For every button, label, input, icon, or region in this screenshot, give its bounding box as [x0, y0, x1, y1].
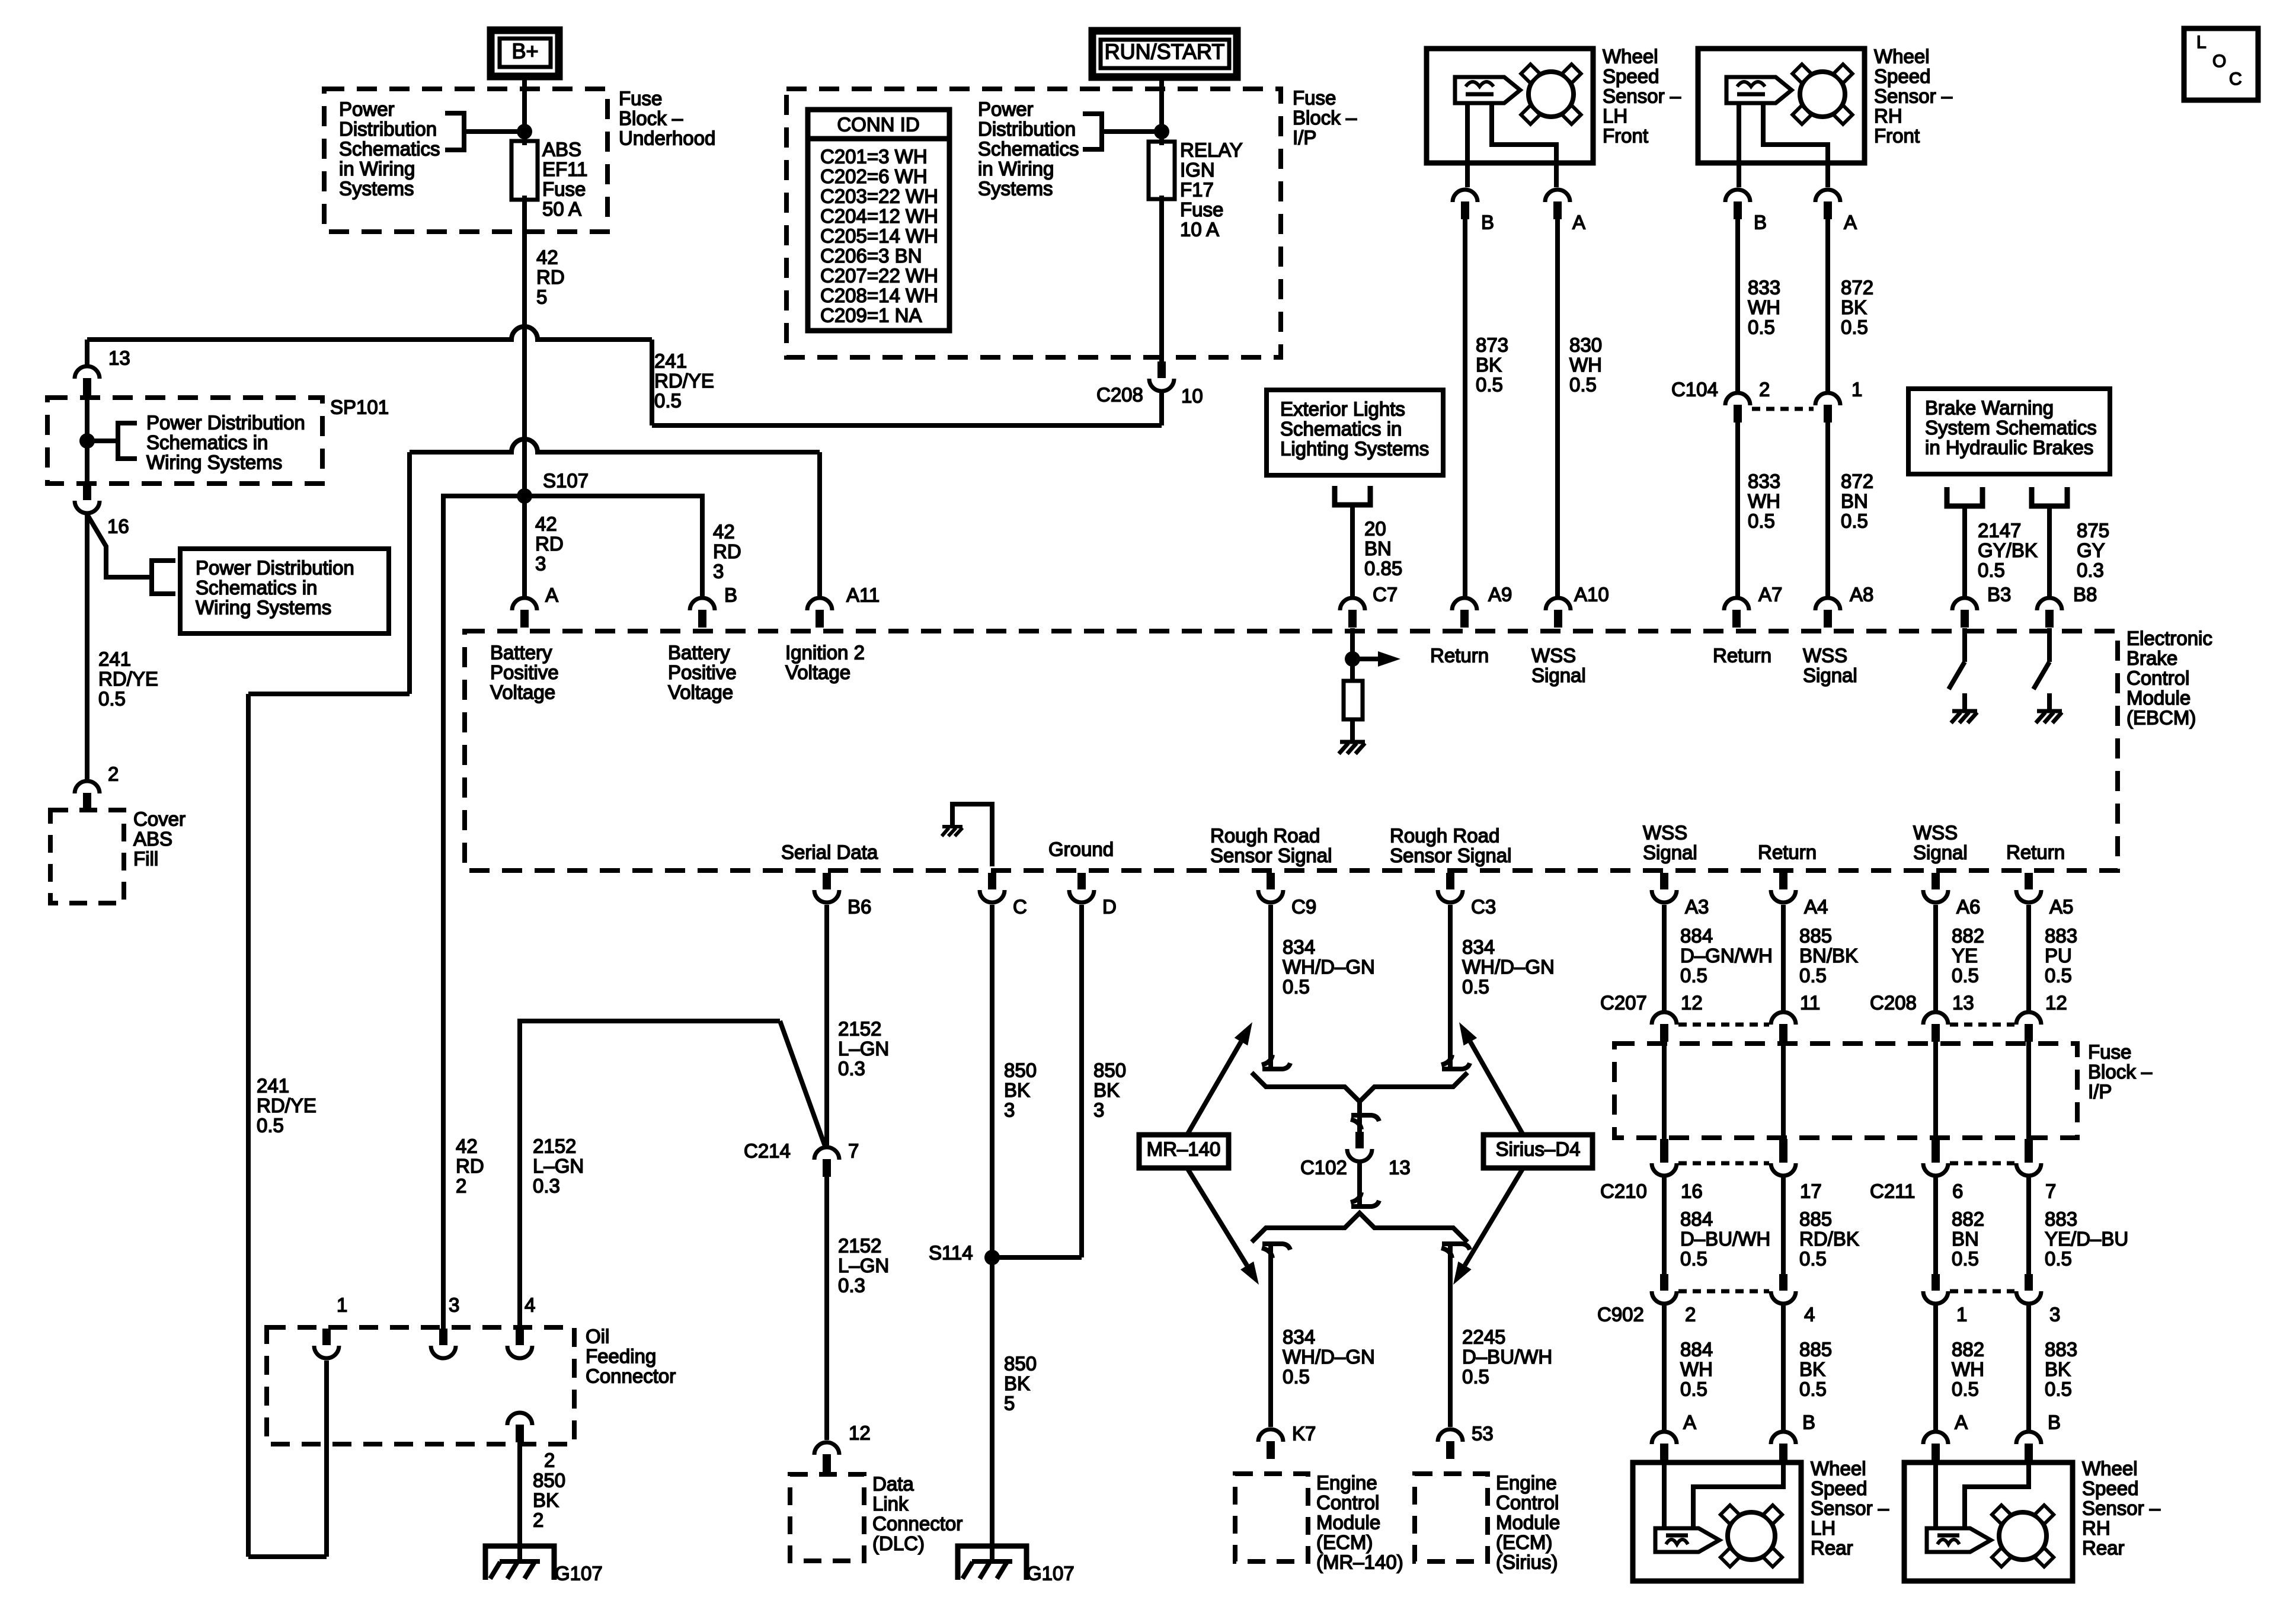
- brace lower (pair K7/53): [1252, 1213, 1467, 1242]
- svg-text:Return: Return: [1430, 644, 1489, 666]
- svg-text:C: C: [2229, 69, 2242, 89]
- svg-text:0.5: 0.5: [1569, 373, 1597, 395]
- svg-text:Sensor –: Sensor –: [2082, 1497, 2161, 1519]
- wire fuse F17 down: [1159, 196, 1164, 361]
- connector C210/C211 row at 3423: [2025, 1139, 2033, 1163]
- connector C210/C211 row at 3266: [1932, 1139, 1940, 1163]
- svg-text:2245: 2245: [1462, 1326, 1505, 1348]
- svg-text:C201=3 WH: C201=3 WH: [820, 145, 928, 167]
- connector DLC pin 12: [814, 1442, 839, 1455]
- svg-text:2152: 2152: [533, 1135, 576, 1157]
- wire to B8: [2047, 506, 2052, 598]
- svg-text:42: 42: [456, 1135, 478, 1157]
- connector A4 pin: [1779, 873, 1787, 889]
- connector C207/C208 row at 3266: [1923, 1012, 1948, 1025]
- svg-text:13: 13: [108, 347, 130, 369]
- svg-text:Connector: Connector: [872, 1512, 962, 1534]
- svg-text:RD/YE: RD/YE: [257, 1094, 316, 1116]
- svg-text:884: 884: [1680, 1208, 1713, 1230]
- svg-text:2: 2: [1685, 1303, 1696, 1325]
- svg-text:BK: BK: [1476, 354, 1502, 376]
- svg-text:850: 850: [1093, 1059, 1126, 1081]
- svg-text:WH/D–GN: WH/D–GN: [1462, 956, 1555, 978]
- svg-text:MR–140: MR–140: [1147, 1138, 1221, 1160]
- svg-text:0.5: 0.5: [1462, 975, 1489, 997]
- connector oil pin 3: [439, 1329, 447, 1345]
- svg-text:Schematics: Schematics: [978, 137, 1079, 159]
- svg-text:BK: BK: [1093, 1079, 1120, 1101]
- wire 16 leader diagonal: [87, 514, 152, 577]
- svg-text:L–GN: L–GN: [838, 1038, 889, 1060]
- cover ABS fill dashed box: [50, 810, 124, 903]
- svg-text:0.5: 0.5: [1283, 1365, 1310, 1387]
- ground G107 (right): [958, 1546, 1027, 1580]
- svg-text:Block –: Block –: [619, 107, 683, 129]
- svg-text:Engine: Engine: [1316, 1471, 1377, 1493]
- svg-text:Sensor Signal: Sensor Signal: [1390, 844, 1511, 866]
- connector C210/C211 row at 3009: [1779, 1139, 1787, 1163]
- connector rear sensor pin at 3009: [1771, 1432, 1796, 1444]
- hook C9: [1262, 1055, 1272, 1065]
- wire oil pin 2 to G107: [517, 1442, 522, 1562]
- svg-text:C206=3 BN: C206=3 BN: [820, 245, 922, 267]
- svg-text:Voltage: Voltage: [785, 661, 850, 683]
- svg-text:882: 882: [1952, 1338, 1984, 1360]
- svg-text:0.3: 0.3: [2077, 559, 2104, 581]
- svg-text:0.3: 0.3: [838, 1274, 865, 1296]
- svg-text:Block –: Block –: [1293, 107, 1357, 129]
- connector rear sensor pin at 3423: [2016, 1432, 2041, 1444]
- svg-text:0.5: 0.5: [1799, 964, 1827, 986]
- label box Power Distribution (solid): [180, 549, 389, 633]
- svg-text:3: 3: [2049, 1303, 2060, 1325]
- svg-text:Power Distribution: Power Distribution: [196, 556, 354, 578]
- wheel speed sensor LH rear box: [1633, 1462, 1801, 1581]
- wire col 3423 through fuse block: [2026, 1042, 2031, 1139]
- wire C102 down: [1357, 1163, 1362, 1204]
- fuse block I/P dashed box (lower): [1614, 1044, 2077, 1138]
- connector A pin: [512, 598, 537, 610]
- connector RH front B: [1725, 190, 1750, 202]
- wire bracket to junction: [464, 129, 525, 134]
- svg-text:Schematics: Schematics: [339, 137, 440, 159]
- svg-text:RH: RH: [2082, 1517, 2110, 1539]
- link C104: [1752, 407, 1814, 411]
- svg-text:C202=6 WH: C202=6 WH: [820, 165, 928, 187]
- svg-text:Signal: Signal: [1803, 664, 1857, 686]
- wire to B3: [1962, 506, 1967, 598]
- svg-text:System Schematics: System Schematics: [1925, 417, 2097, 439]
- svg-text:Wheel: Wheel: [1603, 45, 1658, 67]
- svg-text:Systems: Systems: [339, 177, 414, 199]
- svg-text:C7: C7: [1373, 583, 1398, 605]
- wire RUN/START down: [1159, 77, 1164, 145]
- svg-text:(MR–140): (MR–140): [1316, 1551, 1403, 1573]
- svg-text:RD: RD: [535, 533, 564, 555]
- svg-text:0.5: 0.5: [654, 389, 682, 411]
- svg-text:YE/D–BU: YE/D–BU: [2045, 1228, 2128, 1250]
- svg-text:C104: C104: [1671, 378, 1718, 400]
- wire to connector 13: [85, 340, 89, 365]
- svg-text:0.5: 0.5: [1680, 1378, 1707, 1400]
- svg-text:830: 830: [1569, 334, 1602, 356]
- svg-text:16: 16: [107, 515, 129, 537]
- svg-text:5: 5: [536, 286, 547, 308]
- svg-text:0.5: 0.5: [2045, 964, 2072, 986]
- svg-text:A6: A6: [1956, 895, 1980, 917]
- wire col 2808 through fuse block: [1662, 1042, 1667, 1139]
- svg-text:12: 12: [1681, 991, 1703, 1013]
- svg-text:K7: K7: [1292, 1422, 1316, 1444]
- hook C3: [1441, 1055, 1452, 1065]
- connector RH front A: [1815, 190, 1840, 202]
- connector 53 pin: [1438, 1429, 1463, 1442]
- svg-text:RD/YE: RD/YE: [98, 668, 158, 690]
- svg-text:Sirius–D4: Sirius–D4: [1495, 1138, 1580, 1160]
- svg-text:A: A: [1683, 1411, 1696, 1433]
- svg-text:WSS: WSS: [1531, 644, 1576, 666]
- connector oil pin 1: [322, 1329, 331, 1345]
- svg-text:WH: WH: [1680, 1358, 1713, 1380]
- svg-text:53: 53: [1472, 1422, 1494, 1444]
- wire bracket to junction (I/P): [1102, 129, 1162, 134]
- svg-text:WSS: WSS: [1803, 644, 1847, 666]
- svg-text:C210: C210: [1600, 1180, 1647, 1202]
- arrow MR-140 to C9: [1187, 1042, 1241, 1135]
- svg-text:BN: BN: [1952, 1228, 1979, 1250]
- connector C3 pin: [1446, 873, 1454, 889]
- svg-text:883: 883: [2045, 1338, 2077, 1360]
- svg-text:17: 17: [1800, 1180, 1822, 1202]
- svg-text:Return: Return: [1758, 841, 1817, 863]
- svg-text:873: 873: [1476, 334, 1508, 356]
- svg-text:6: 6: [1952, 1180, 1963, 1202]
- junction dot C7: [1345, 651, 1360, 667]
- svg-text:B+: B+: [511, 39, 538, 63]
- svg-text:Control: Control: [1496, 1492, 1559, 1513]
- svg-text:Speed: Speed: [1603, 65, 1659, 87]
- svg-text:RD: RD: [536, 266, 565, 288]
- svg-text:0.3: 0.3: [838, 1057, 865, 1079]
- wire col 3009 middle: [1781, 1177, 1786, 1274]
- svg-text:885: 885: [1799, 1208, 1832, 1230]
- svg-text:Cover: Cover: [133, 808, 186, 830]
- svg-text:L–GN: L–GN: [838, 1254, 889, 1276]
- connector LH front A: [1545, 190, 1570, 202]
- svg-text:Systems: Systems: [978, 177, 1053, 199]
- wire col 2808 lower: [1662, 1305, 1667, 1430]
- svg-text:A: A: [1572, 211, 1585, 233]
- svg-text:2152: 2152: [838, 1017, 881, 1039]
- svg-text:Schematics in: Schematics in: [146, 431, 268, 453]
- wire col 3266 through fuse block: [1933, 1042, 1938, 1139]
- connector A5 pin: [2025, 873, 2033, 889]
- svg-text:5: 5: [1004, 1392, 1015, 1414]
- svg-text:0.5: 0.5: [1680, 1247, 1707, 1269]
- arrow MR-140 to K7: [1187, 1168, 1247, 1266]
- svg-text:Positive: Positive: [668, 661, 737, 683]
- svg-text:883: 883: [2045, 1208, 2077, 1230]
- svg-text:(DLC): (DLC): [872, 1532, 925, 1554]
- CONN ID header line: [810, 136, 947, 142]
- svg-text:WH: WH: [1952, 1358, 1984, 1380]
- wire C104-1 to A8: [1825, 423, 1830, 598]
- splice S114 dot: [984, 1250, 1000, 1265]
- link C902 row left: [1678, 1289, 1769, 1294]
- brake warning box: [1908, 389, 2110, 474]
- svg-text:Lighting Systems: Lighting Systems: [1280, 437, 1429, 459]
- svg-text:B: B: [724, 584, 737, 606]
- junction dot on B+ feed: [517, 124, 532, 139]
- svg-text:GY/BK: GY/BK: [1978, 539, 2038, 561]
- switch B8 internal: [2047, 628, 2052, 662]
- svg-text:0.5: 0.5: [1978, 559, 2005, 581]
- wire 241 RD/YE horizontal with hop: [87, 327, 652, 340]
- svg-text:Wiring Systems: Wiring Systems: [146, 451, 282, 473]
- wire 241 to C208: [652, 423, 1162, 428]
- connector K7 pin: [1258, 1429, 1283, 1442]
- connector rear sensor pin at 2808: [1652, 1432, 1677, 1444]
- wire resistor to ground: [1350, 719, 1355, 741]
- svg-text:882: 882: [1952, 1208, 1984, 1230]
- connector C207/C208 row at 2808: [1652, 1012, 1677, 1025]
- fuse block underhood dashed box: [324, 89, 607, 232]
- connector C207/C208 row at 3009: [1771, 1012, 1796, 1025]
- svg-text:C208: C208: [1870, 991, 1917, 1013]
- link C207 row: [1678, 1023, 1769, 1027]
- svg-text:Module: Module: [1496, 1511, 1560, 1533]
- svg-text:Fuse: Fuse: [2088, 1041, 2131, 1062]
- svg-text:884: 884: [1680, 924, 1713, 946]
- svg-text:872: 872: [1841, 470, 1873, 492]
- svg-text:50 A: 50 A: [542, 198, 581, 220]
- svg-text:Ground: Ground: [1048, 838, 1114, 860]
- svg-text:BK: BK: [2045, 1358, 2071, 1380]
- svg-text:Sensor –: Sensor –: [1603, 85, 1681, 107]
- bracket to fuse block note: [445, 113, 464, 150]
- hook below brace: [1351, 1119, 1361, 1129]
- svg-text:RD/YE: RD/YE: [654, 370, 714, 392]
- wire exterior lights to C7: [1350, 505, 1355, 598]
- svg-text:241: 241: [654, 350, 687, 372]
- wire ignition A11 horizontal with hop: [410, 439, 820, 452]
- wire col 2808 upper: [1662, 905, 1667, 1011]
- svg-text:Battery: Battery: [490, 641, 552, 663]
- svg-text:2: 2: [1759, 378, 1770, 400]
- ground G107 (left): [485, 1546, 554, 1580]
- svg-text:SP101: SP101: [330, 396, 389, 418]
- wire serial diagonal: [780, 1021, 825, 1146]
- svg-text:(EBCM): (EBCM): [2126, 706, 2196, 728]
- link C211 row: [1950, 1161, 2014, 1166]
- wire col 3266 middle: [1933, 1177, 1938, 1274]
- svg-text:Voltage: Voltage: [668, 681, 733, 703]
- svg-text:BK: BK: [533, 1489, 559, 1511]
- connector 2: [75, 781, 100, 793]
- svg-text:0.5: 0.5: [1462, 1365, 1489, 1387]
- svg-text:GY: GY: [2077, 539, 2105, 561]
- svg-text:A3: A3: [1685, 895, 1709, 917]
- connector B6 pin: [823, 873, 831, 889]
- brace upper (pair C9/C3): [1252, 1073, 1467, 1102]
- svg-text:B: B: [1754, 211, 1767, 233]
- svg-text:B: B: [1481, 211, 1494, 233]
- wire 241 long vertical: [246, 694, 251, 1557]
- svg-text:C207: C207: [1600, 991, 1647, 1013]
- svg-text:A11: A11: [846, 584, 880, 606]
- connector C214 pin 7: [814, 1147, 839, 1160]
- svg-text:Exterior Lights: Exterior Lights: [1280, 398, 1405, 420]
- wire LH A to A10: [1555, 219, 1560, 598]
- svg-text:RD: RD: [713, 540, 741, 562]
- svg-text:Signal: Signal: [1643, 841, 1697, 863]
- wire to 53: [1448, 1243, 1453, 1427]
- connector oil pin 2: [507, 1413, 532, 1425]
- wire col 3266 lower: [1933, 1305, 1938, 1430]
- wire col 3423 lower: [2026, 1305, 2031, 1430]
- connector C207/C208 row at 3423: [2016, 1012, 2041, 1025]
- svg-text:Engine: Engine: [1496, 1471, 1557, 1493]
- svg-text:Feeding: Feeding: [586, 1345, 656, 1367]
- svg-text:42: 42: [536, 246, 558, 268]
- svg-text:850: 850: [1004, 1352, 1037, 1374]
- svg-text:4: 4: [525, 1294, 535, 1316]
- svg-text:A7: A7: [1758, 583, 1782, 605]
- wire S107 left branch: [443, 496, 525, 1331]
- svg-text:C902: C902: [1597, 1303, 1644, 1325]
- LOC box: [2184, 28, 2258, 100]
- svg-text:42: 42: [535, 513, 557, 535]
- svg-text:Signal: Signal: [1913, 841, 1968, 863]
- connector A11 pin: [807, 598, 832, 610]
- svg-text:Sensor –: Sensor –: [1874, 85, 1953, 107]
- svg-text:12: 12: [849, 1422, 871, 1444]
- svg-text:A9: A9: [1488, 583, 1512, 605]
- connector A8 pin: [1815, 598, 1840, 610]
- connector 16: [83, 484, 91, 500]
- svg-text:885: 885: [1799, 1338, 1832, 1360]
- connector A7 pin: [1724, 598, 1749, 610]
- svg-text:O: O: [2212, 52, 2226, 71]
- svg-text:241: 241: [98, 648, 131, 670]
- svg-text:1: 1: [1956, 1303, 1967, 1325]
- svg-text:A10: A10: [1574, 583, 1609, 605]
- wire S107 right branch: [525, 496, 702, 598]
- svg-text:Ignition 2: Ignition 2: [785, 641, 865, 663]
- power symbol B+ box: [491, 30, 559, 76]
- svg-text:C: C: [1013, 895, 1027, 917]
- svg-text:2: 2: [533, 1509, 543, 1531]
- svg-text:CONN ID: CONN ID: [837, 113, 919, 135]
- svg-text:10: 10: [1181, 385, 1203, 407]
- junction dot SP101: [79, 433, 95, 449]
- svg-text:0.5: 0.5: [1283, 975, 1310, 997]
- arrow Sirius to C3: [1470, 1042, 1523, 1135]
- svg-text:ABS: ABS: [542, 138, 581, 160]
- svg-text:C204=12 WH: C204=12 WH: [820, 205, 938, 227]
- wire C208 to corner: [1159, 393, 1164, 425]
- svg-text:7: 7: [848, 1140, 859, 1161]
- hook K7 wire top: [1262, 1248, 1272, 1258]
- wire RH A to C104: [1825, 219, 1830, 392]
- svg-text:0.5: 0.5: [1748, 510, 1775, 532]
- svg-text:834: 834: [1283, 936, 1315, 958]
- wire C104-2 to A7: [1735, 423, 1740, 598]
- svg-text:Speed: Speed: [2082, 1477, 2138, 1499]
- wire C to S114: [990, 905, 994, 1562]
- bracket below exterior lights: [1335, 486, 1370, 505]
- connector C210/C211 row at 2808: [1660, 1139, 1668, 1163]
- svg-text:Sensor Signal: Sensor Signal: [1210, 844, 1332, 866]
- bracket below brake warning (right): [2032, 487, 2067, 506]
- wire C214 to DLC: [824, 1177, 829, 1440]
- wheel speed sensor RH rear box: [1904, 1462, 2073, 1581]
- svg-text:Schematics in: Schematics in: [196, 577, 317, 599]
- svg-text:Sensor –: Sensor –: [1811, 1497, 1889, 1519]
- connector A9 pin: [1452, 598, 1477, 610]
- svg-text:C214: C214: [744, 1140, 791, 1161]
- svg-text:C9: C9: [1291, 895, 1316, 917]
- svg-text:241: 241: [257, 1074, 289, 1096]
- svg-text:0.5: 0.5: [1680, 964, 1707, 986]
- svg-text:0.5: 0.5: [1799, 1247, 1827, 1269]
- svg-text:0.5: 0.5: [1841, 316, 1868, 338]
- svg-text:WSS: WSS: [1913, 821, 1958, 843]
- svg-text:834: 834: [1283, 1326, 1315, 1348]
- wire to K7: [1268, 1243, 1273, 1427]
- connector C902 row at 3009: [1779, 1274, 1787, 1291]
- svg-text:S107: S107: [543, 469, 589, 491]
- svg-text:0.5: 0.5: [1476, 373, 1503, 395]
- svg-text:Fuse: Fuse: [1180, 199, 1223, 220]
- svg-text:Front: Front: [1603, 124, 1648, 146]
- oil feeding connector dashed box: [267, 1327, 574, 1444]
- splice pack SP101 dashed box: [47, 398, 322, 484]
- svg-text:C3: C3: [1471, 895, 1496, 917]
- svg-text:Voltage: Voltage: [490, 681, 555, 703]
- svg-text:WSS: WSS: [1643, 821, 1687, 843]
- arrow C7 internal: [1352, 657, 1378, 661]
- svg-text:C203=22 WH: C203=22 WH: [820, 185, 938, 207]
- connector C208 pin 10: [1157, 361, 1166, 378]
- connector B8 pin: [2037, 598, 2062, 610]
- svg-text:WH/D–GN: WH/D–GN: [1283, 1346, 1375, 1368]
- svg-text:Link: Link: [872, 1493, 909, 1515]
- svg-text:RUN/START: RUN/START: [1105, 40, 1225, 64]
- wheel speed sensor LH front box: [1427, 49, 1593, 163]
- svg-text:(ECM): (ECM): [1496, 1531, 1552, 1553]
- svg-text:A5: A5: [2049, 895, 2073, 917]
- svg-text:0.5: 0.5: [257, 1114, 284, 1136]
- svg-text:3: 3: [1004, 1099, 1015, 1121]
- svg-text:WH/D–GN: WH/D–GN: [1283, 956, 1375, 978]
- svg-text:Serial Data: Serial Data: [781, 841, 878, 863]
- svg-text:2: 2: [456, 1174, 466, 1196]
- svg-text:42: 42: [713, 520, 735, 542]
- bracket below brake warning (left): [1947, 487, 1982, 506]
- svg-text:ABS: ABS: [133, 828, 172, 850]
- svg-text:C205=14 WH: C205=14 WH: [820, 225, 938, 247]
- connector D pin: [1077, 873, 1086, 889]
- svg-text:1: 1: [1851, 378, 1862, 400]
- wire col 2808 middle: [1662, 1177, 1667, 1274]
- svg-text:(Sirius): (Sirius): [1496, 1551, 1558, 1573]
- svg-text:Rear: Rear: [2082, 1537, 2125, 1558]
- connector B3 pin: [1952, 598, 1977, 610]
- wire brace to C102: [1357, 1102, 1362, 1132]
- svg-text:A4: A4: [1804, 895, 1828, 917]
- bracket to fuse block I/P note: [1083, 114, 1102, 149]
